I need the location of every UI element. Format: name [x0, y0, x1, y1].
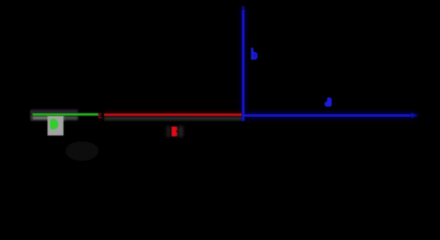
blue horizontal axis — [243, 114, 414, 117]
blue label b near vertical axis — [251, 48, 258, 60]
dark blue glow behind horizontal axis — [246, 112, 414, 120]
gray smudge band tail below green segment — [63, 116, 78, 120]
faint gray mark left of red label — [167, 126, 170, 137]
gray smudge band below green segment — [32, 116, 65, 120]
blue label a below horizontal axis — [325, 97, 332, 106]
blue vertical axis arrowhead — [242, 6, 245, 12]
dark blue glow behind vertical axis — [240, 9, 247, 121]
gray smudge band above axis left part — [32, 110, 78, 114]
gray highlight rectangle under green marker — [48, 116, 64, 136]
faint smudge below green marker area — [65, 141, 99, 161]
red label glyph — [172, 127, 178, 137]
blue horizontal axis arrowhead — [411, 113, 420, 118]
dark center of b bowl — [254, 55, 256, 57]
gray smudge band below red segment — [104, 117, 242, 121]
dark red glow above red segment — [105, 111, 241, 114]
green marker blob in gray rectangle — [50, 119, 58, 130]
blue vertical axis — [242, 10, 245, 121]
svg-text:ε: ε — [98, 109, 103, 121]
green segment — [33, 113, 99, 116]
faint gray mark right of red label — [179, 126, 184, 137]
tick at left end of axis — [31, 110, 33, 121]
red segment — [104, 113, 242, 116]
